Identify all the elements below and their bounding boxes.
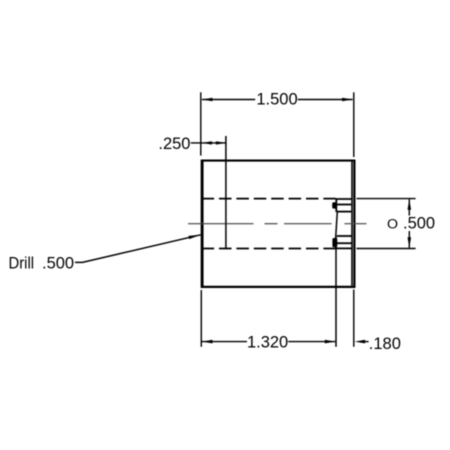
part outline: left edge (201, 160, 204, 288)
internal feature: bottom connector (336, 247, 352, 249)
dim 1.320: extension line right (from hole bottom through part) (335, 249, 337, 347)
internal feature: lower groove lines (337, 235, 352, 237)
dim .250: right arrow (216, 141, 226, 144)
svg-text:1.500: 1.500 (256, 91, 297, 109)
internal feature: lower lug (332, 238, 337, 247)
svg-text:.500: .500 (42, 254, 74, 272)
dim 1.500: extension line right (353, 92, 355, 157)
dim 1.320: extension line left (200, 290, 202, 347)
dim O .500: up arrow (408, 199, 412, 210)
dim .180: extension line right (353, 290, 355, 347)
svg-text:Drill: Drill (9, 254, 35, 272)
dim .250: dimension line (191, 142, 226, 144)
internal feature: slanted mid line (336, 212, 338, 238)
dim 1.500: extension line left (200, 92, 202, 155)
dim .180: tail line (363, 341, 369, 343)
dim 1.320: right arrow (325, 340, 336, 344)
part outline: right outer edge (353, 160, 355, 288)
internal feature: upper lug (332, 202, 337, 208)
dim O .500: extension line top (357, 198, 416, 200)
dim .250: extension line (into part) (225, 136, 227, 249)
part outline: bottom edge (201, 286, 355, 288)
internal feature: top connector (336, 198, 352, 200)
hidden line: hole top (202, 198, 336, 200)
svg-text:1.320: 1.320 (247, 333, 288, 351)
svg-text:.500: .500 (403, 215, 435, 233)
dim O .500: extension line bottom (357, 248, 416, 250)
dim 1.320: left arrow (202, 340, 213, 344)
dim .250: left arrow (202, 141, 212, 144)
svg-text:.180: .180 (369, 335, 401, 353)
internal feature: left vertical (hole bottom at depth 1.320) (335, 199, 337, 213)
leader Drill .500: arrowhead (189, 235, 201, 239)
part outline: right inner chamfer line (351, 162, 353, 286)
internal feature: upper groove lines (337, 204, 351, 206)
dim O .500: dimension line (408, 199, 410, 215)
dim .180: arrow pointing left (355, 340, 366, 344)
svg-text:.250: .250 (158, 135, 190, 153)
part outline: top edge (201, 160, 355, 162)
dim 1.500: dimension line (202, 99, 255, 101)
centerline (188, 223, 367, 225)
leader Drill .500: leader line (75, 235, 201, 263)
dim 1.500: left arrow (202, 98, 213, 102)
dim O .500: down arrow (408, 237, 412, 248)
svg-text:O: O (387, 216, 398, 232)
hidden line: hole bottom (202, 248, 336, 250)
dim 1.500: right arrow (342, 98, 353, 102)
dim 1.320: dimension line (202, 341, 247, 343)
